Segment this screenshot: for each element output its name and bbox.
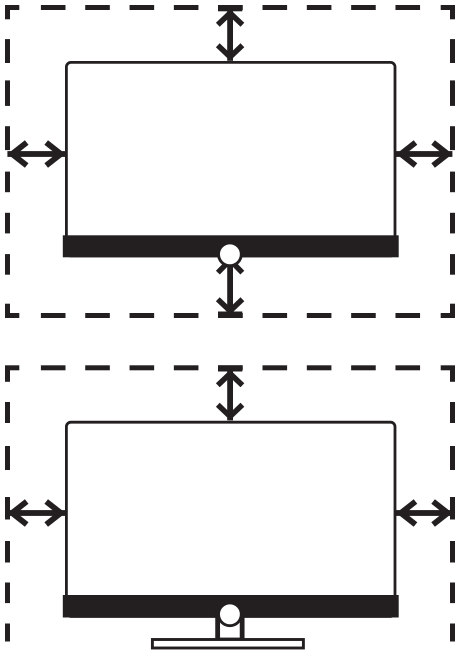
clearance arrow 2 top (double-headed vertical) [216, 370, 244, 421]
clearance arrow 2 right (double-headed horizontal) [396, 499, 453, 527]
TV screen 1 outline [66, 62, 395, 256]
clearance arrow 1 left (double-headed horizontal) [7, 140, 66, 168]
wall boundary 1 top (dashed) [5, 5, 455, 10]
TV screen 2 outline [66, 422, 395, 616]
wall boundary 2 top (dashed) [5, 365, 455, 370]
clearance arrow 1 right (double-headed horizontal) [396, 140, 453, 168]
clearance arrow 1 top (double-headed vertical) [216, 9, 244, 61]
wall boundary 2 left (dashed) [5, 366, 10, 642]
wall boundary 1 left (dashed) [5, 5, 10, 318]
clearance arrow 2 top tip bar [218, 365, 242, 371]
stand base 2 [152, 640, 303, 649]
wall boundary 1 bottom (dashed) [5, 313, 455, 318]
TV camera circle 1 [219, 243, 242, 266]
TV camera circle 2 [219, 603, 242, 626]
clearance arrow 2 left (double-headed horizontal) [7, 499, 66, 527]
wall boundary 2 right (dashed) [450, 366, 455, 642]
clearance arrow 1 top tip bar [218, 5, 242, 11]
clearance arrow 1 bottom (double-headed vertical) [216, 256, 244, 315]
TV speaker bar 1 (black) [63, 235, 399, 257]
TV speaker bar 2 (black) [63, 595, 399, 618]
clearance arrow 1 bottom tip bar [218, 312, 242, 318]
wall boundary 1 right (dashed) [450, 5, 455, 318]
stand neck 2 [218, 607, 243, 640]
